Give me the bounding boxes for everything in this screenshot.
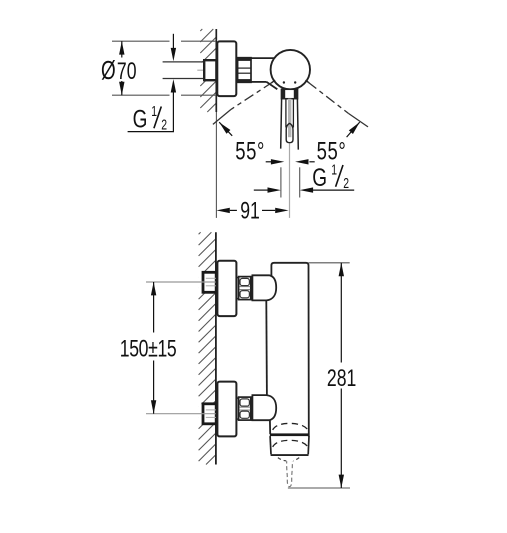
wall hatching (side view)	[200, 29, 216, 112]
281 extension lines	[288, 263, 350, 488]
mixer body (side view)	[251, 58, 277, 89]
svg-text:150±15: 150±15	[120, 334, 177, 362]
Ø70 extension lines	[112, 41, 216, 95]
G1/2 (outlet) extension lines	[281, 167, 300, 197]
lever swing dashed line right (55°)	[308, 82, 368, 127]
bottom connector ball cover	[252, 395, 276, 420]
281 dimension line	[339, 263, 344, 488]
G1/2 (outlet) label	[312, 162, 349, 192]
right 55° leader arrow	[347, 120, 362, 137]
svg-text:1: 1	[151, 103, 157, 119]
top connection centre line	[146, 281, 216, 283]
bottom connection centre line	[146, 413, 216, 415]
lever shaft shading	[288, 99, 291, 138]
left 55° leader arrow	[217, 120, 232, 135]
bottom union nut (front view)	[239, 397, 251, 420]
svg-text:281: 281	[327, 364, 356, 392]
svg-text:55°: 55°	[235, 137, 265, 165]
G1/2 (top) label with underline	[128, 103, 174, 133]
lever swing dashed line left (55°)	[213, 82, 273, 124]
hatch blockout at pipe passage	[200, 63, 205, 78]
escutcheon flange (side view)	[217, 41, 236, 96]
G1/2 supply pipe (side view)	[163, 62, 205, 79]
hidden mousseur dome (dashed)	[273, 440, 308, 447]
in-wall union fitting (side view)	[204, 60, 216, 80]
marking dots on ball	[283, 81, 297, 83]
281 label	[327, 364, 356, 392]
mounting nut (side view)	[238, 58, 251, 83]
150±15 dimension	[151, 282, 156, 414]
wall face line (front view)	[215, 232, 217, 464]
lever centre line	[289, 144, 291, 218]
hatch blockout at top union	[198, 273, 204, 292]
svg-text:G: G	[312, 164, 327, 192]
water drop	[287, 461, 293, 486]
G1/2 (outlet) dimension arrows	[254, 187, 354, 192]
wall face line (side view)	[215, 29, 217, 112]
91 dimension	[216, 208, 288, 213]
wall hatching (front view)	[199, 232, 216, 464]
150±15 label	[120, 334, 177, 362]
outlet collar thick band	[270, 433, 309, 436]
G1/2 (top) dimension arrows	[171, 34, 176, 132]
top escutcheon (front view)	[217, 261, 236, 316]
water stream funnel (dashed)	[278, 458, 299, 461]
55° label left	[235, 137, 265, 165]
91 label	[240, 196, 260, 224]
top S-union in wall	[203, 272, 216, 292]
wall extension line down to 91 dimension	[215, 112, 217, 218]
55° label right	[317, 137, 347, 165]
svg-text:70: 70	[117, 57, 137, 85]
svg-text:Ø: Ø	[101, 56, 116, 84]
Ø70 label	[101, 56, 137, 84]
lever collar	[281, 89, 297, 98]
lever handle outline	[281, 99, 299, 150]
hidden aerator dome (dashed)	[273, 423, 308, 430]
hatch blockout at bottom union	[198, 404, 204, 423]
bottom connector pipe stub	[236, 398, 238, 419]
control ball (side view)	[271, 50, 310, 89]
outlet left edge	[269, 420, 271, 434]
bottom S-union in wall	[203, 404, 216, 424]
top connector pipe stub	[236, 278, 238, 299]
svg-text:55°: 55°	[317, 137, 347, 165]
lever tip	[286, 123, 293, 142]
svg-text:G: G	[133, 105, 148, 133]
svg-text:2: 2	[161, 117, 167, 133]
top connector ball cover	[252, 275, 276, 300]
svg-text:2: 2	[343, 175, 349, 191]
bottom escutcheon (front view)	[217, 382, 236, 437]
top union nut (front view)	[239, 277, 251, 300]
pipe centre line	[197, 69, 216, 71]
Ø70 dimension line with arrows	[119, 41, 124, 95]
mousseur housing	[270, 436, 309, 455]
tick marks on ball along swing direction	[272, 80, 310, 83]
mixer body (front view)	[266, 263, 309, 437]
svg-text:91: 91	[240, 196, 260, 224]
55° inner dimension arrows at lever	[266, 159, 315, 164]
svg-text:1: 1	[331, 162, 337, 178]
lever shaft inner profile lines	[286, 99, 294, 128]
